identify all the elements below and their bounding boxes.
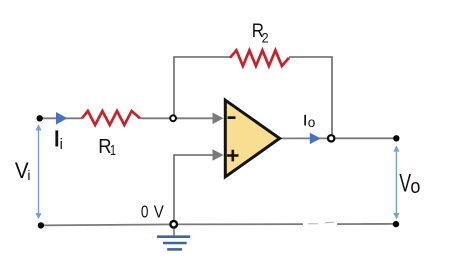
current arrow Io (blue) [310, 133, 321, 144]
wire: vertical from inverting node up to R2 left [173, 57, 175, 116]
wire: top left horizontal to R2 [173, 56, 230, 58]
node: inverting input junction (open) [170, 115, 176, 121]
wire: input from left terminal to R1 [42, 117, 82, 119]
wire: ground node up then right to plus input [174, 155, 214, 222]
measurement arrow Vo (double headed) [395, 149, 397, 216]
wire: arrowhead into minus input [213, 113, 224, 125]
svg-text:o: o [308, 114, 316, 130]
node: output top terminal [393, 135, 399, 141]
label Ii [55, 130, 58, 146]
op-amp plus sign [227, 150, 238, 162]
wire: ground stub below node [173, 228, 175, 237]
svg-text:i: i [27, 167, 30, 183]
svg-text:1: 1 [110, 143, 116, 159]
wire: R1 to inverting node [140, 117, 171, 119]
resistor R2 [230, 50, 289, 66]
resistor R1 [82, 111, 140, 125]
svg-text:V: V [154, 203, 165, 222]
wire: white smudge artifact on bottom rail [303, 219, 337, 228]
wire: output node to right terminal [336, 137, 397, 139]
node: output bottom terminal [393, 221, 399, 227]
svg-text:i: i [60, 137, 63, 153]
svg-text:2: 2 [262, 30, 269, 46]
node: input top terminal [37, 115, 43, 121]
wire: R2 right to top right corner [289, 56, 332, 58]
op-amp minus sign [228, 116, 236, 119]
wire: inverting node to op-amp minus input [175, 117, 214, 119]
wire: vertical from top right corner down to output node [331, 56, 333, 134]
node: output junction (open) [328, 135, 334, 141]
svg-text:0: 0 [141, 203, 149, 222]
wire: op-amp output to output node [279, 137, 327, 139]
ground symbol [157, 237, 190, 250]
node: input bottom terminal [38, 222, 44, 228]
measurement arrow Vi (double headed) [38, 128, 40, 216]
op-amp U1 [225, 100, 279, 177]
wire: bottom rail [40, 224, 396, 226]
svg-text:o: o [410, 176, 420, 198]
label Io [304, 115, 306, 126]
node: ground junction (open) [170, 221, 177, 228]
current arrow Ii (blue) [56, 112, 67, 125]
wire: arrowhead into plus input [213, 149, 224, 161]
